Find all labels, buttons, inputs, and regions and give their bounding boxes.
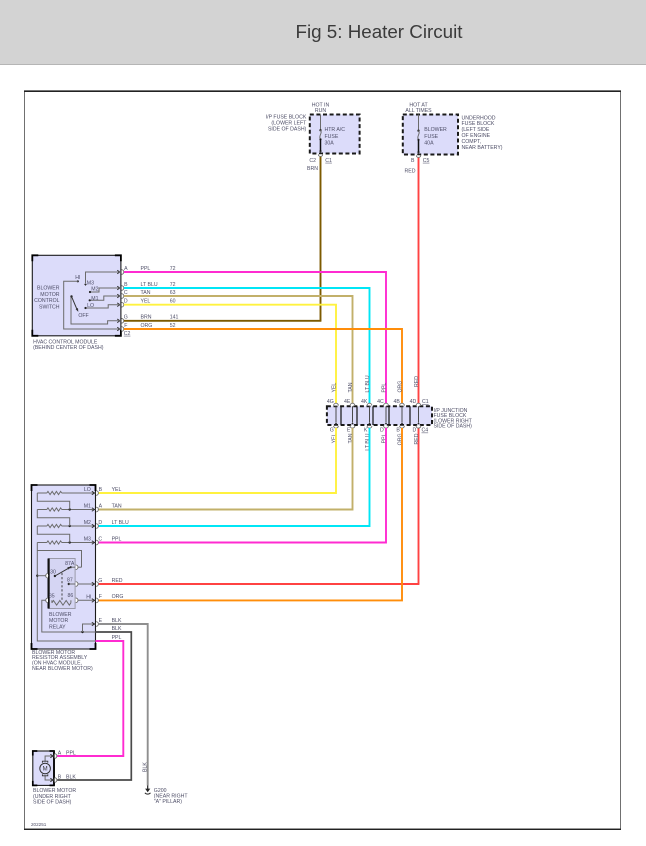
svg-text:60: 60 bbox=[170, 299, 176, 305]
svg-text:C: C bbox=[124, 290, 128, 296]
motor internal wiring bbox=[45, 756, 54, 762]
relay coil bbox=[52, 601, 71, 606]
wire PPL resistor block to blower motor pin A bbox=[57, 641, 123, 756]
connector bump C1 under fuse box bbox=[318, 154, 322, 156]
series link M2 to M3 bbox=[37, 526, 69, 543]
svg-text:F: F bbox=[99, 594, 102, 600]
svg-text:PPL: PPL bbox=[381, 383, 387, 393]
wire ORG junction B to resistor pin F bbox=[99, 428, 402, 601]
fuse HTR A/C FUSE 30A bbox=[320, 115, 322, 130]
svg-text:HI: HI bbox=[75, 275, 80, 281]
svg-text:B: B bbox=[99, 487, 103, 493]
relay mechanical link (dashed) bbox=[61, 573, 63, 600]
svg-text:30A: 30A bbox=[325, 141, 335, 147]
wire LT BLU from switch B to junction 4K bbox=[124, 288, 370, 403]
svg-text:M3: M3 bbox=[84, 537, 91, 543]
svg-text:PPL: PPL bbox=[66, 750, 76, 756]
switch pin C exit bbox=[117, 294, 120, 298]
wire 86 to pin F (HI) bbox=[78, 599, 95, 601]
switch pin G exit bbox=[117, 319, 120, 323]
resistor M3 row bbox=[37, 542, 47, 544]
switch internal: pin D line to LO contact bbox=[86, 305, 121, 308]
svg-text:C1: C1 bbox=[422, 399, 429, 405]
svg-text:87A: 87A bbox=[65, 561, 75, 567]
junction pass-through RED pin 4D/D bbox=[416, 403, 421, 405]
svg-text:E: E bbox=[99, 618, 103, 624]
resistor M2 row bbox=[37, 525, 47, 527]
wire ORG from switch F to junction 4B bbox=[124, 329, 402, 403]
junction pass-through PPL pin 4C/D bbox=[384, 403, 389, 405]
wire YEL from switch D to junction 4G bbox=[124, 305, 336, 404]
splice node bbox=[81, 631, 83, 633]
svg-text:M2: M2 bbox=[84, 520, 91, 526]
svg-text:72: 72 bbox=[170, 282, 176, 288]
I/P fuse block (dashed box) bbox=[310, 115, 360, 154]
svg-text:PPL: PPL bbox=[141, 266, 151, 272]
svg-text:72: 72 bbox=[170, 266, 176, 272]
motor pin A bbox=[50, 754, 53, 758]
resistor LO row bbox=[37, 492, 47, 494]
junction block divider x=373 bbox=[372, 406, 374, 425]
svg-text:B: B bbox=[411, 158, 415, 164]
resistor block pin E exit bbox=[92, 622, 95, 626]
svg-text:SIDE OF DASH): SIDE OF DASH) bbox=[33, 800, 72, 806]
wire BLK resistor splice to blower motor pin B bbox=[57, 632, 131, 780]
svg-text:M1: M1 bbox=[91, 296, 98, 302]
svg-text:LT BLU: LT BLU bbox=[365, 375, 371, 392]
junction pass-through LT BLU pin 4K/K bbox=[367, 403, 372, 405]
junction pass-through TAN pin 4E/E bbox=[350, 403, 355, 405]
svg-text:85: 85 bbox=[49, 593, 55, 599]
svg-text:MOTOR: MOTOR bbox=[40, 292, 59, 298]
svg-text:A: A bbox=[124, 266, 128, 272]
header band bbox=[0, 0, 646, 64]
junction node on M1 row bbox=[69, 508, 71, 510]
svg-text:TAN: TAN bbox=[112, 503, 122, 509]
junction block divider x=357 bbox=[356, 406, 358, 425]
svg-text:FUSE: FUSE bbox=[424, 134, 438, 140]
switch internal: pin G line to wiper pivot bbox=[71, 297, 121, 324]
junction block divider x=389 bbox=[388, 406, 390, 425]
svg-text:RED: RED bbox=[112, 578, 123, 584]
wire RED from blower fuse down through junction block to relay pin G bbox=[418, 158, 420, 404]
pin E internal link bbox=[83, 624, 96, 632]
svg-text:B: B bbox=[58, 774, 62, 780]
junction block divider x=410 bbox=[409, 406, 411, 425]
svg-text:C2: C2 bbox=[309, 158, 316, 164]
svg-text:E: E bbox=[347, 428, 351, 434]
switch internal: pin B line to M2 contact bbox=[90, 288, 121, 292]
resistor block pin F exit bbox=[92, 599, 95, 603]
svg-text:C4: C4 bbox=[422, 428, 429, 434]
svg-text:LO: LO bbox=[87, 303, 94, 309]
svg-text:D: D bbox=[98, 520, 102, 526]
svg-text:TAN: TAN bbox=[348, 382, 354, 392]
svg-text:C1: C1 bbox=[325, 158, 332, 164]
motor brushes bbox=[42, 761, 47, 763]
svg-text:M: M bbox=[43, 767, 48, 773]
switch internal: pin A line to M3 contact bbox=[86, 272, 121, 284]
svg-text:YEL: YEL bbox=[141, 299, 151, 305]
svg-text:52: 52 bbox=[170, 323, 176, 329]
svg-text:NEAR BLOWER MOTOR): NEAR BLOWER MOTOR) bbox=[32, 666, 93, 672]
svg-text:B: B bbox=[124, 282, 128, 288]
svg-text:YEL: YEL bbox=[331, 383, 337, 393]
svg-text:4G: 4G bbox=[327, 399, 334, 405]
resistor M1 row bbox=[37, 509, 47, 511]
wire YEL junction G to resistor pin B bbox=[99, 428, 336, 493]
svg-text:ORG: ORG bbox=[112, 594, 124, 600]
svg-text:G: G bbox=[124, 315, 128, 321]
svg-text:D: D bbox=[380, 428, 384, 434]
svg-text:OF ENGINE: OF ENGINE bbox=[462, 133, 491, 139]
svg-text:86: 86 bbox=[68, 593, 74, 599]
series link M1 to M2 bbox=[37, 510, 69, 527]
switch pin F exit bbox=[117, 327, 120, 331]
svg-text:M1: M1 bbox=[84, 504, 91, 510]
I/P junction fuse block (dashed box) bbox=[327, 406, 432, 425]
wire 85 to ground splice bbox=[42, 600, 96, 632]
junction node on M3 row bbox=[69, 541, 71, 543]
underhood fuse block (dashed box) bbox=[403, 115, 458, 155]
resistor block pin C exit bbox=[92, 541, 95, 545]
resistor block pin A exit bbox=[92, 508, 95, 512]
svg-text:FUSE: FUSE bbox=[325, 134, 339, 140]
svg-text:4C: 4C bbox=[377, 399, 384, 405]
svg-text:D: D bbox=[124, 299, 128, 305]
svg-text:4K: 4K bbox=[361, 399, 368, 405]
svg-text:A: A bbox=[99, 503, 103, 509]
switch internal: pin C line to M1 contact bbox=[90, 296, 121, 300]
svg-text:PPL: PPL bbox=[112, 536, 122, 542]
wire LT BLU junction K to resistor pin D bbox=[99, 428, 370, 526]
resistor block pin G exit bbox=[92, 582, 95, 586]
relay armature contact bbox=[54, 575, 56, 577]
switch wiper arm (OFF position) bbox=[70, 295, 72, 297]
svg-text:TAN: TAN bbox=[141, 290, 151, 296]
resistor block pin D exit bbox=[92, 524, 95, 528]
common bus from M3 down to PPL output bbox=[37, 543, 95, 642]
svg-text:141: 141 bbox=[170, 315, 179, 321]
svg-text:HTR A/C: HTR A/C bbox=[325, 127, 346, 133]
svg-text:MOTOR: MOTOR bbox=[49, 618, 68, 624]
svg-text:"A" PILLAR): "A" PILLAR) bbox=[154, 799, 182, 805]
switch internal: HI contact line to pin F bbox=[77, 280, 79, 282]
ground G200 symbol bbox=[147, 786, 149, 790]
svg-text:BLOWER: BLOWER bbox=[49, 612, 72, 618]
svg-text:G: G bbox=[98, 578, 102, 584]
svg-text:4D: 4D bbox=[410, 399, 417, 405]
svg-text:C: C bbox=[98, 536, 102, 542]
svg-text:RED: RED bbox=[414, 376, 420, 387]
svg-text:K: K bbox=[364, 428, 368, 434]
svg-text:BLOWER: BLOWER bbox=[424, 127, 447, 133]
svg-text:BLK: BLK bbox=[112, 626, 122, 632]
svg-text:LT BLU: LT BLU bbox=[112, 520, 129, 526]
svg-text:202251: 202251 bbox=[31, 822, 47, 827]
motor pin B bbox=[50, 778, 53, 782]
svg-text:RUN: RUN bbox=[315, 108, 326, 114]
HVAC control module box (blower motor control switch) bbox=[32, 255, 121, 335]
fuse BLOWER FUSE 40A bbox=[418, 115, 420, 131]
svg-text:YEL: YEL bbox=[112, 487, 122, 493]
switch pin B exit bbox=[117, 286, 120, 290]
svg-text:M2: M2 bbox=[91, 287, 98, 293]
svg-text:4E: 4E bbox=[344, 399, 351, 405]
svg-text:63: 63 bbox=[170, 290, 176, 296]
svg-text:B: B bbox=[396, 428, 400, 434]
wire TAN from switch C to junction 4E bbox=[124, 296, 353, 403]
series link LO to M1 bbox=[37, 493, 69, 510]
wire PPL from switch A to junction 4C bbox=[124, 272, 386, 403]
svg-text:Fig 5: Heater Circuit: Fig 5: Heater Circuit bbox=[296, 21, 464, 42]
svg-text:D: D bbox=[413, 428, 417, 434]
svg-text:SIDE OF DASH): SIDE OF DASH) bbox=[268, 127, 307, 133]
wire BRN from switch G to fuse drop bbox=[124, 320, 322, 322]
blower motor box bbox=[33, 751, 54, 785]
svg-text:C2: C2 bbox=[124, 331, 131, 337]
svg-text:30: 30 bbox=[50, 569, 56, 575]
svg-text:C5: C5 bbox=[423, 158, 430, 164]
blower motor relay box bbox=[49, 559, 76, 609]
svg-text:BLK: BLK bbox=[143, 762, 149, 772]
svg-text:(LEFT SIDE: (LEFT SIDE bbox=[462, 127, 490, 133]
svg-text:LT BLU: LT BLU bbox=[141, 282, 158, 288]
branch to relay 87A bbox=[37, 551, 81, 568]
svg-text:HI: HI bbox=[86, 595, 91, 601]
svg-text:(BEHIND CENTER OF DASH): (BEHIND CENTER OF DASH) bbox=[33, 345, 104, 351]
relay pin 30 bbox=[36, 575, 38, 577]
svg-text:RELAY: RELAY bbox=[49, 625, 66, 631]
svg-text:G: G bbox=[330, 428, 334, 434]
wire TAN junction E to resistor pin A bbox=[99, 428, 353, 510]
svg-text:BLK: BLK bbox=[66, 774, 76, 780]
wire BLK pin E to ground G200 bbox=[99, 624, 148, 786]
motor symbol M bbox=[40, 763, 51, 774]
svg-text:A: A bbox=[58, 750, 62, 756]
switch pin D exit bbox=[117, 303, 120, 307]
svg-text:NEAR BATTERY): NEAR BATTERY) bbox=[462, 145, 503, 151]
svg-text:BRN: BRN bbox=[307, 166, 318, 172]
wire BRN from HTR A/C fuse down to switch G row bbox=[320, 157, 322, 321]
svg-text:RED: RED bbox=[414, 433, 420, 444]
resistor block pin B exit bbox=[92, 491, 95, 495]
svg-text:LO: LO bbox=[84, 487, 91, 493]
junction node on M2 row bbox=[69, 525, 71, 527]
junction pass-through YEL pin 4G/G bbox=[334, 403, 339, 405]
connector bump under blower fuse bbox=[416, 155, 420, 157]
svg-text:BLOWER: BLOWER bbox=[37, 286, 60, 292]
svg-text:40A: 40A bbox=[424, 141, 434, 147]
svg-text:4B: 4B bbox=[393, 399, 400, 405]
svg-text:OFF: OFF bbox=[78, 313, 88, 319]
junction pass-through ORG pin 4B/B bbox=[400, 403, 405, 405]
svg-text:RED: RED bbox=[405, 168, 416, 174]
blower motor resistor assembly box bbox=[32, 485, 96, 649]
svg-text:87: 87 bbox=[67, 577, 73, 583]
svg-text:SIDE OF DASH): SIDE OF DASH) bbox=[434, 424, 473, 430]
svg-text:F: F bbox=[124, 323, 127, 329]
junction block divider x=341 bbox=[340, 406, 342, 425]
svg-text:BLK: BLK bbox=[112, 618, 122, 624]
svg-text:(LOWER LEFT: (LOWER LEFT bbox=[271, 121, 307, 127]
svg-text:ORG: ORG bbox=[397, 381, 403, 393]
switch pin A exit bbox=[117, 270, 120, 274]
svg-text:ALL TIMES: ALL TIMES bbox=[405, 108, 432, 114]
svg-text:CONTROL: CONTROL bbox=[34, 298, 59, 304]
svg-text:SWITCH: SWITCH bbox=[39, 304, 60, 310]
wire PPL junction D to resistor pin C bbox=[99, 428, 386, 543]
svg-text:ORG: ORG bbox=[141, 323, 153, 329]
svg-text:BRN: BRN bbox=[141, 315, 152, 321]
